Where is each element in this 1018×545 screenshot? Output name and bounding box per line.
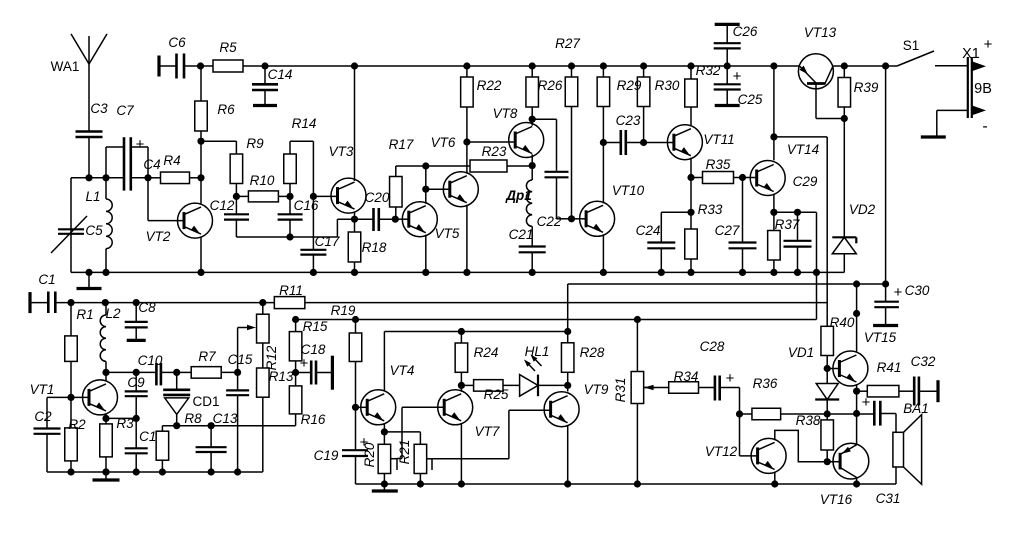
transistor VT8 <box>493 106 544 158</box>
node R38 top <box>824 410 831 417</box>
wire VT6 base <box>426 188 450 190</box>
resistor R38 <box>796 413 834 462</box>
resistor R32 <box>685 62 721 126</box>
svg-text:R2: R2 <box>68 417 86 432</box>
svg-text:C20: C20 <box>365 190 390 205</box>
wire VT16 collector <box>853 478 860 488</box>
svg-text:WA1: WA1 <box>51 59 80 74</box>
resistor R10 <box>236 173 290 202</box>
svg-text:R30: R30 <box>655 78 680 93</box>
node C23 right <box>640 139 647 146</box>
resistor R29 <box>597 62 610 142</box>
wire HL1 to R28 <box>538 384 568 386</box>
capacitor C14 <box>252 66 292 106</box>
node VT3 emitter <box>351 212 358 223</box>
svg-text:VT4: VT4 <box>390 363 415 378</box>
ground X1 <box>921 135 946 138</box>
node VT4 emitter <box>381 423 388 436</box>
LED HL1 <box>520 344 550 396</box>
wire VT6 collector <box>463 138 470 173</box>
capacitor C32 <box>911 354 938 406</box>
wire VT5 base <box>395 218 409 220</box>
capacitor C8 <box>125 299 156 340</box>
svg-text:R23: R23 <box>482 144 507 159</box>
resistor R8 <box>156 411 202 476</box>
wire VT10 emitter <box>600 234 607 276</box>
node VT1 emitter <box>102 414 109 422</box>
svg-text:HL1: HL1 <box>525 344 550 359</box>
wire X1 minus <box>937 110 968 136</box>
ground bottom-left <box>93 468 120 480</box>
svg-text:R4: R4 <box>163 153 180 168</box>
wire V2 supply to bottom <box>774 137 827 326</box>
resistor R39 <box>838 62 879 118</box>
resistor R13 <box>257 368 294 426</box>
wire VT3 collector <box>351 62 358 181</box>
resistor R34 <box>669 369 699 393</box>
wire C6 to R5 node <box>184 62 213 69</box>
node R39 bottom <box>841 115 848 122</box>
capacitor C29 <box>774 174 818 276</box>
svg-text:VT8: VT8 <box>493 106 518 121</box>
transistor VT12 <box>705 438 786 473</box>
svg-text:R14: R14 <box>292 116 317 131</box>
wire VT11 base <box>644 142 674 144</box>
svg-text:R12: R12 <box>264 345 279 370</box>
wire VT1 base <box>47 394 89 401</box>
svg-text:C21: C21 <box>509 227 534 242</box>
svg-text:VT6: VT6 <box>431 135 456 150</box>
svg-text:X1: X1 <box>962 46 980 62</box>
wire S1 down <box>885 66 887 284</box>
node VT15 emitter <box>853 384 860 395</box>
resistor R33 <box>685 202 723 276</box>
resistor R2 <box>65 397 86 475</box>
svg-text:R38: R38 <box>796 413 821 428</box>
svg-text:R8: R8 <box>184 411 202 426</box>
resistor R7 <box>177 349 238 378</box>
bottom supply rail2 <box>30 292 827 314</box>
capacitor C9 <box>125 372 148 422</box>
wire VT9 emitter <box>564 425 571 488</box>
svg-text:C2: C2 <box>34 409 52 424</box>
svg-text:C5: C5 <box>85 223 103 238</box>
transistor VT16 <box>820 443 869 507</box>
node C31 left <box>853 391 860 417</box>
wire emitter to C9 <box>106 417 136 419</box>
svg-text:Др1: Др1 <box>505 188 532 203</box>
resistor R35 <box>691 157 757 184</box>
svg-text:R32: R32 <box>696 63 721 78</box>
svg-text:R35: R35 <box>706 157 731 172</box>
wire A switched supply <box>568 280 890 287</box>
wire VT7 emitter <box>458 423 465 488</box>
capacitor C1 label <box>38 272 55 287</box>
svg-text:R39: R39 <box>854 80 879 95</box>
svg-text:C17: C17 <box>315 234 340 249</box>
wire emitter to R21 <box>384 432 420 444</box>
wire R28 column upper <box>564 284 571 343</box>
wire VT15 base <box>827 368 839 370</box>
resistor R36 <box>740 376 875 420</box>
inductor L1 <box>85 174 112 276</box>
wire VT2 emitter <box>197 238 204 277</box>
wire R31 to R34 <box>644 387 669 389</box>
svg-text:VT9: VT9 <box>584 382 609 397</box>
transistor VT10 <box>580 183 645 236</box>
resistor R26 <box>526 62 563 119</box>
svg-text:L2: L2 <box>105 306 121 321</box>
node C23 left <box>600 139 607 203</box>
resistor R17 <box>389 137 426 219</box>
svg-text:C15: C15 <box>228 352 253 367</box>
resistor R37 <box>768 212 800 276</box>
node VT8 collector <box>529 116 536 126</box>
capacitor C26 <box>714 24 758 66</box>
capacitor C27 <box>715 178 757 277</box>
resistor R22 <box>461 62 502 142</box>
node C15 top <box>234 369 241 376</box>
varicap CD1 <box>163 372 219 425</box>
capacitor C20 <box>355 190 396 231</box>
svg-text:VT13: VT13 <box>804 25 837 40</box>
svg-text:VT11: VT11 <box>703 132 734 147</box>
svg-text:VT2: VT2 <box>146 229 171 244</box>
capacitor C22 <box>532 119 571 229</box>
svg-text:C8: C8 <box>138 300 156 315</box>
svg-text:+: + <box>984 36 993 53</box>
transistor VT1 <box>30 380 118 415</box>
transistor VT9 <box>544 382 609 427</box>
svg-text:BA1: BA1 <box>903 401 929 416</box>
top rail <box>243 65 886 67</box>
svg-text:C32: C32 <box>911 354 936 369</box>
switch S1 <box>882 38 934 70</box>
svg-text:C24: C24 <box>636 223 661 238</box>
bottom rail <box>356 483 897 485</box>
svg-text:VD2: VD2 <box>849 202 876 217</box>
svg-text:C13: C13 <box>213 411 238 426</box>
svg-text:R36: R36 <box>753 376 778 391</box>
resistor R28 <box>561 343 604 389</box>
svg-text:R27: R27 <box>555 36 580 51</box>
transistor VT6 <box>431 135 479 207</box>
trimmer R21 <box>397 440 432 488</box>
svg-text:VT12: VT12 <box>705 444 738 459</box>
wire VT6 emitter <box>463 205 470 276</box>
capacitor C2 <box>34 397 61 472</box>
svg-text:C27: C27 <box>715 223 740 238</box>
node VT16 base <box>824 458 840 465</box>
resistor R19 vertical <box>349 320 362 408</box>
svg-text:+: + <box>136 136 145 153</box>
svg-text:R7: R7 <box>198 349 216 364</box>
capacitor C4 label <box>143 157 160 172</box>
resistor R41 <box>857 360 914 397</box>
resistor R40 <box>821 315 855 369</box>
svg-text:R11: R11 <box>279 283 303 298</box>
svg-text:R21: R21 <box>397 440 412 465</box>
wire VT12 base <box>740 414 758 456</box>
svg-text:C9: C9 <box>127 375 145 390</box>
svg-text:+: + <box>862 394 871 411</box>
svg-text:C29: C29 <box>793 174 818 189</box>
svg-text:R33: R33 <box>698 202 723 217</box>
capacitor C13 <box>196 411 238 476</box>
connector X1 <box>962 36 992 135</box>
svg-text:VT15: VT15 <box>864 330 897 345</box>
svg-text:C3: C3 <box>90 101 108 116</box>
svg-text:9В: 9В <box>974 81 992 97</box>
wire VT16 emitter <box>856 414 858 445</box>
svg-text:C31: C31 <box>876 491 901 506</box>
ground bottom <box>372 484 398 491</box>
capacitor C18 <box>296 342 333 390</box>
wire VT12 emitter <box>771 472 778 488</box>
svg-text:C12: C12 <box>210 198 235 213</box>
zener diode VD2 <box>832 119 875 273</box>
svg-text:C10: C10 <box>138 353 163 368</box>
capacitor C12 <box>210 196 249 237</box>
resistor R24 <box>455 332 498 386</box>
svg-text:VD1: VD1 <box>788 345 814 360</box>
node CD1 top <box>173 369 180 376</box>
svg-text:R13: R13 <box>269 369 294 384</box>
capacitor C3 <box>76 101 109 137</box>
capacitor C31 <box>862 394 901 506</box>
svg-text:R15: R15 <box>303 319 328 334</box>
wire VT7 collector <box>460 385 462 391</box>
node C14 <box>261 62 268 69</box>
svg-text:R34: R34 <box>674 369 699 384</box>
svg-text:VT5: VT5 <box>435 226 460 241</box>
wire VT1 collector <box>105 372 107 380</box>
node CD1 bottom <box>173 422 180 429</box>
wire S1 to X1 <box>935 65 968 67</box>
resistor R1 <box>65 303 94 398</box>
resistor R4 <box>161 153 190 184</box>
resistor R14 <box>284 116 317 196</box>
node R6 bottom <box>197 138 204 178</box>
svg-text:R25: R25 <box>484 387 509 402</box>
capacitor C30 <box>873 283 930 326</box>
inductor L2 <box>100 299 121 372</box>
wire VT7 base <box>397 407 444 458</box>
diode VD1 <box>788 345 839 414</box>
wire R6 to R9 <box>201 141 236 154</box>
wire VT14 collector <box>770 62 777 160</box>
node C4 right <box>131 174 152 181</box>
node VT10 base <box>568 215 575 222</box>
capacitor C19 <box>314 407 369 484</box>
capacitor C16 <box>278 196 319 237</box>
transistor VT3 <box>329 144 366 213</box>
svg-text:R31: R31 <box>613 378 628 403</box>
node VD1 top <box>824 365 831 372</box>
node L2 bottom <box>102 369 109 376</box>
node VT14 emitter <box>770 194 777 216</box>
svg-text:R19: R19 <box>331 303 356 318</box>
capacitor C17 <box>300 234 339 276</box>
resistor R16 <box>289 373 326 428</box>
svg-text:VT10: VT10 <box>612 183 645 198</box>
wire VT9 base <box>432 410 551 459</box>
svg-text:VT1: VT1 <box>30 382 55 397</box>
node VT7 collector <box>458 382 465 389</box>
svg-text:R37: R37 <box>775 217 800 232</box>
svg-text:C26: C26 <box>733 24 758 39</box>
wire node to C4 <box>89 177 124 179</box>
wire VT8 base <box>467 141 515 143</box>
transistor VT15 <box>833 330 897 386</box>
svg-text:R26: R26 <box>538 78 563 93</box>
svg-text:C30: C30 <box>905 283 930 298</box>
resistor R11 <box>259 283 305 309</box>
wire CD1 bias <box>162 422 295 429</box>
resistor R30 <box>637 62 680 142</box>
node C18 <box>292 369 299 376</box>
capacitor C15 <box>226 352 253 476</box>
antenna WA1 <box>51 34 107 74</box>
svg-text:C1: C1 <box>38 272 55 287</box>
wire antenna to C3 <box>88 64 90 131</box>
trimmer R20 <box>362 432 397 488</box>
wire VT9 collector <box>567 385 569 391</box>
potentiometer R12 <box>238 303 279 373</box>
transistor VT11 <box>667 125 734 160</box>
bias wire R19 line <box>292 303 817 323</box>
svg-text:S1: S1 <box>903 38 920 53</box>
wire C12 C16 bottoms <box>236 233 337 240</box>
svg-text:-: - <box>982 118 987 135</box>
resistor R5 <box>213 40 243 72</box>
svg-text:C22: C22 <box>537 214 562 229</box>
svg-text:R41: R41 <box>877 360 902 375</box>
wire VT5 emitter <box>422 235 429 276</box>
wire VT3 emitter jog <box>337 219 354 237</box>
svg-text:C6: C6 <box>168 35 186 50</box>
wire VT11 emitter <box>687 158 694 229</box>
svg-text:C16: C16 <box>294 198 319 213</box>
svg-text:R16: R16 <box>301 412 326 427</box>
wire collector row <box>106 369 156 376</box>
node C12 top <box>233 193 240 200</box>
resistor R6 <box>195 66 235 141</box>
svg-text:C7: C7 <box>116 103 134 118</box>
svg-text:+: + <box>733 68 742 85</box>
svg-text:R5: R5 <box>219 40 237 55</box>
capacitor C25 <box>714 62 763 107</box>
potentiometer R31 <box>613 320 655 488</box>
resistor R23 <box>426 144 532 172</box>
svg-text:R24: R24 <box>474 345 499 360</box>
capacitor C7 <box>116 103 144 191</box>
svg-text:C25: C25 <box>738 92 763 107</box>
svg-text:R17: R17 <box>389 137 414 152</box>
wire R4 to VT2 collector node <box>189 174 204 181</box>
label R29 <box>617 78 642 93</box>
svg-text:C28: C28 <box>700 339 725 354</box>
transistor VT2 <box>146 203 213 244</box>
transistor VT13 <box>798 25 836 89</box>
wire C7 top loop <box>106 147 148 178</box>
svg-text:R20: R20 <box>362 442 377 467</box>
svg-text:C19: C19 <box>314 448 339 463</box>
ground under LC <box>77 269 102 289</box>
svg-text:R22: R22 <box>477 78 502 93</box>
inductor Dr1 <box>505 166 532 246</box>
svg-text:VT14: VT14 <box>787 142 819 157</box>
svg-text:+: + <box>726 370 735 387</box>
node main LC <box>71 174 93 181</box>
svg-text:R18: R18 <box>362 240 387 255</box>
capacitor C23 <box>603 113 643 155</box>
svg-text:VT3: VT3 <box>329 144 354 159</box>
node R1 top <box>67 299 74 306</box>
bottom-left ground rail <box>47 471 263 473</box>
svg-text:+: + <box>300 355 309 372</box>
wire VT2 base <box>148 178 184 221</box>
svg-text:R29: R29 <box>617 78 642 93</box>
resistor R18 <box>348 219 387 276</box>
transistor VT4 <box>361 363 415 425</box>
transistor VT7 <box>438 390 500 439</box>
svg-text:R28: R28 <box>580 345 605 360</box>
variable capacitor C5 <box>51 178 103 273</box>
wire VT2 collector <box>200 178 202 204</box>
wire VT5 collector <box>422 162 429 203</box>
wire R13 R16 bottom <box>262 426 264 472</box>
capacitor C11 <box>125 418 163 475</box>
capacitor C28 <box>699 339 740 401</box>
wire C4 to R4 <box>148 177 161 179</box>
svg-text:C14: C14 <box>268 67 293 82</box>
wire VT4 collector <box>383 332 385 391</box>
node C16 top <box>286 193 293 200</box>
middle ground rail <box>71 271 844 273</box>
capacitor C21 <box>509 227 546 276</box>
capacitor C6 <box>159 35 186 79</box>
wire VT4 collector rail <box>384 328 567 335</box>
wire VT10 base <box>572 218 587 220</box>
capacitor C10 <box>138 353 177 385</box>
svg-text:VT16: VT16 <box>820 492 853 507</box>
svg-text:R1: R1 <box>76 307 93 322</box>
svg-text:R40: R40 <box>830 315 855 330</box>
svg-text:R9: R9 <box>246 136 264 151</box>
wire VT15 collector <box>853 284 860 352</box>
wire R14 column <box>310 141 338 249</box>
svg-text:CD1: CD1 <box>192 394 219 409</box>
resistor R25 <box>461 380 519 402</box>
resistor R9 <box>230 136 264 196</box>
node VT4 base <box>352 404 367 411</box>
wire V1 bias <box>798 212 821 319</box>
svg-text:VT7: VT7 <box>475 424 500 439</box>
resistor R27 <box>555 36 580 219</box>
speaker BA1 <box>893 401 929 484</box>
svg-text:R6: R6 <box>217 102 235 117</box>
svg-text:C23: C23 <box>616 113 641 128</box>
wire VT13 base <box>816 84 844 119</box>
capacitor C24 <box>636 212 691 276</box>
transistor VT5 <box>402 202 460 241</box>
transistor VT14 <box>750 142 819 196</box>
wire C3 to node <box>88 137 90 178</box>
svg-text:+: + <box>894 284 903 301</box>
svg-text:C4: C4 <box>143 157 160 172</box>
node VT5 base <box>392 216 399 223</box>
